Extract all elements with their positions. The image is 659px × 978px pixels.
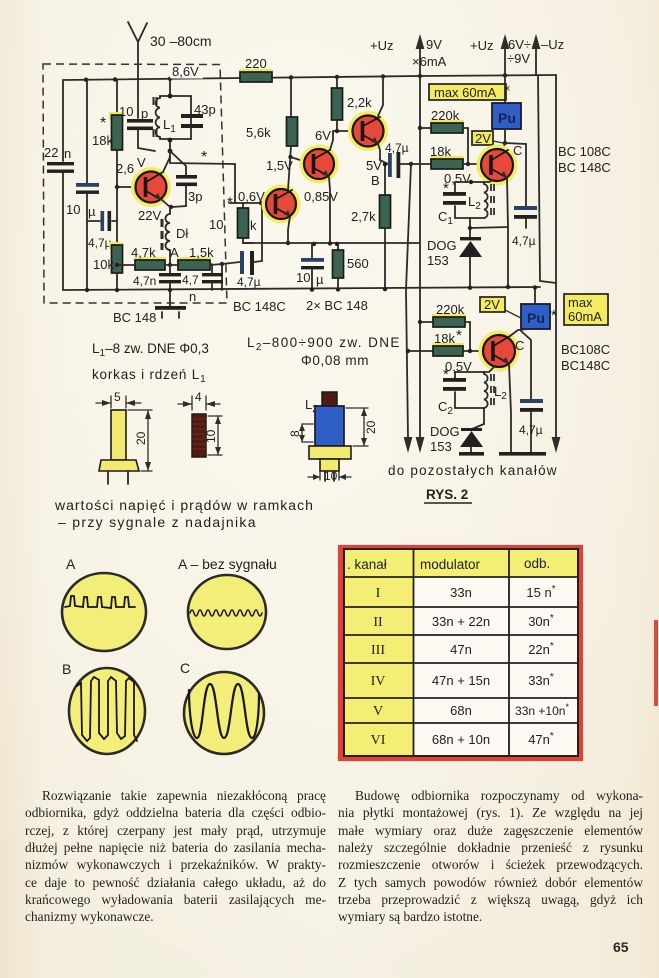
capacitor 4,7n [169,265,171,274]
wire below 22n [62,173,64,290]
svg-text:max: max [568,295,593,310]
scope circle B [69,668,145,754]
wire left branch [62,80,64,161]
svg-text:modulator: modulator [420,557,481,572]
svg-text:V: V [137,155,146,170]
transistor T1 [134,170,169,205]
capacitor 3p [170,151,186,175]
svg-text:– przy sygnale z nadajnika: – przy sygnale z nadajnika [58,514,257,530]
dimension 10 ferrite [208,415,222,417]
capacitor 22n [47,162,74,165]
page number [613,939,629,955]
capacitor 4,7u output ch1 [505,143,526,207]
wire 18k branch [116,79,118,115]
right text column [338,787,643,926]
svg-text:+Uz: +Uz [470,38,493,53]
svg-text:V: V [373,704,383,719]
wire T1 collector [163,157,170,172]
wire T4 emitter down [378,144,380,160]
svg-text:5: 5 [114,390,121,404]
svg-text:odb.: odb. [524,556,550,571]
svg-text:IV: IV [371,674,386,689]
svg-text:33n + 22n: 33n + 22n [432,614,490,629]
svg-text:1,5k: 1,5k [189,245,214,260]
svg-text:C: C [513,143,522,158]
relay Pu ch1 [492,103,521,129]
svg-text:2V: 2V [475,131,491,146]
svg-text:III: III [371,643,385,658]
wire below 10u [86,194,88,290]
wire T3 emitter down [329,177,330,243]
svg-text:33n: 33n [450,585,472,600]
svg-text:2,6: 2,6 [116,161,134,176]
svg-text:C: C [515,338,524,353]
inductor L2 ch2 [483,372,485,374]
wire 220k to base node [463,128,468,164]
waveform C sine [189,684,259,738]
svg-text:20: 20 [364,420,378,434]
svg-text:10: 10 [324,469,338,483]
node junction dots on top rail [84,78,88,82]
svg-text:5V: 5V [366,158,382,173]
transistor T2 buffer [264,187,298,221]
svg-text:4,7µ: 4,7µ [512,234,536,248]
svg-text:B: B [371,173,380,188]
dimension 10 L2 [319,462,321,480]
svg-text:*: * [201,149,207,166]
svg-text:I: I [376,586,381,601]
svg-text:2,7k: 2,7k [351,209,376,224]
transistor T3 [302,147,336,181]
svg-text:Dł: Dł [176,226,188,241]
svg-text:15 n*: 15 n* [526,584,555,600]
wire 18k to 10k [116,150,118,245]
svg-text:4,7µ: 4,7µ [385,141,409,155]
ferrite rod drawing [192,414,206,457]
svg-text:3p: 3p [188,189,202,204]
wire 10u branch [86,80,88,183]
wire T6 collector to Pu2 [510,329,528,336]
capacitor 10p antenna [127,119,153,123]
coil former L1 drawing [111,410,126,460]
resistor 10k [109,242,123,249]
table column lines [413,549,415,756]
coil former L2 drawing [322,392,337,406]
transistor T4 [351,114,386,149]
resistor 18k ch1 [430,156,464,164]
dashed oscillator box [43,64,227,303]
wire B bus to 18k [411,163,431,165]
wire Pu to +Uz [504,75,506,103]
table modulator values [432,585,490,747]
svg-text:n: n [189,289,196,304]
wire top supply rail [63,75,556,80]
svg-text:max 60mA: max 60mA [434,85,496,100]
svg-text:DOG: DOG [430,424,460,439]
power arrow 9V rail bottom [416,437,425,453]
wire Pu2 top to rail [534,287,536,304]
svg-text:220: 220 [245,56,267,71]
svg-text:20: 20 [134,431,148,445]
svg-text:18k: 18k [430,144,451,159]
svg-text:*: * [456,327,462,344]
svg-text:18k: 18k [434,331,455,346]
scope circle A2 [188,575,266,649]
svg-text:2V: 2V [484,297,500,312]
svg-text:wartości napięć i prądów w ram: wartości napięć i prądów w ramkach [54,497,314,513]
capacitor 10u [76,183,99,187]
yellow box 2V ch2 [480,297,505,312]
svg-text:68n: 68n [450,703,472,718]
svg-text:153: 153 [430,439,452,454]
transistor T5 ch1 [479,147,515,183]
svg-text:+Uz: +Uz [370,38,393,53]
dimension 20 [128,409,152,411]
svg-text:4,7µ: 4,7µ [237,275,261,289]
power -Uz arrow [535,44,537,75]
resistor 560 [337,244,339,250]
svg-text:2,2k: 2,2k [347,95,372,110]
wire T4 collector to rail [378,76,383,116]
core marks L1 [154,97,157,137]
svg-text:BC 148C: BC 148C [233,299,286,314]
svg-text:43p: 43p [194,102,216,117]
svg-text:BC 148: BC 148 [113,310,156,325]
power arrow signal bus bottom [404,437,413,453]
svg-text:4,7k: 4,7k [131,245,156,260]
svg-text:4,7: 4,7 [182,273,199,287]
wire tank2 to diode [483,408,485,424]
label 8,6V [170,67,203,79]
yellow box max 60mA [429,84,506,100]
svg-text:*: * [443,180,449,197]
wire right bus vertical [555,75,557,438]
svg-text:22: 22 [44,145,58,160]
waveform A2 ripple [190,610,262,616]
scope circle A [62,573,146,651]
wire T5 emitter to node [470,177,508,228]
antenna [137,42,139,118]
table rows roman numerals [371,586,386,748]
table header yellow band [344,549,578,577]
svg-text:*: * [443,366,449,383]
core marks Dl [161,219,164,250]
svg-text:*: * [100,115,106,132]
svg-text:8,6V: 8,6V [172,64,199,79]
waveform A [65,596,135,608]
wire osc out down to base node [234,164,236,203]
svg-text:18k: 18k [92,133,113,148]
wire 10p to tank [138,130,155,151]
svg-text:A: A [66,556,76,572]
wire signal bus B down [406,164,411,438]
svg-text:68n + 10n: 68n + 10n [432,732,490,747]
svg-text:Φ0,08 mm: Φ0,08 mm [301,353,369,368]
svg-text:k: k [250,218,257,233]
svg-text:8: 8 [288,430,302,437]
diode DOG 153 ch1 [460,237,481,240]
svg-text:B: B [62,661,71,677]
svg-text:4,7n: 4,7n [133,274,156,288]
svg-text:9V: 9V [426,37,442,52]
wire T6 emitter down [509,364,511,452]
table first column yellow [344,577,414,756]
svg-text:4,7µ: 4,7µ [519,423,543,437]
svg-text:BC148C: BC148C [561,358,610,373]
resistor 2,2k [336,77,338,88]
table odb values [515,584,569,747]
svg-text:22V: 22V [138,208,161,223]
capacitor C2 [443,378,466,382]
svg-text:BC 108C: BC 108C [558,144,611,159]
svg-text:II: II [373,615,383,630]
wire T3 collector to T4 base [330,131,352,150]
svg-text:*: * [551,307,557,324]
svg-text:5,6k: 5,6k [246,125,271,140]
resistor 100k [242,203,244,208]
svg-text:µ: µ [316,272,324,287]
svg-text:0,6V: 0,6V [238,189,265,204]
yellow box max 60mA ch2 [564,294,608,325]
core marks L2 ch2 [491,374,494,405]
svg-text:. kanał: . kanał [347,557,387,572]
svg-text:2× BC 148: 2× BC 148 [306,298,368,313]
svg-text:47n: 47n [450,642,472,657]
wire tank to diode node [469,218,471,238]
resistor 1,5k [177,257,211,265]
wire 5,6k down to T2 collector [288,146,291,190]
transistor T6 ch2 [481,333,517,369]
svg-text:220k: 220k [436,302,465,317]
capacitor 43p [181,114,203,118]
wire 18k to T5 base [463,163,482,165]
scope circle C [184,672,264,754]
inductor Dl choke [169,207,171,214]
svg-text:Pu: Pu [527,310,545,326]
resistor 220k ch1 [420,127,431,129]
dimension 20 L2 [346,407,368,409]
svg-text:÷9V: ÷9V [507,51,530,66]
wire 10k to rail [116,273,118,290]
wire osc output to buffer [170,151,235,164]
capacitor 10u decoupling [311,244,313,258]
wire common emitter line [243,242,420,244]
core marks L2 ch1 [491,184,494,215]
dimension 8 [301,424,303,442]
ground symbol oscillator [169,290,171,306]
wire common bottom rail [63,287,540,290]
svg-text:do pozostałych kanałów: do pozostałych kanałów [388,463,558,478]
wire T1 emitter node [162,200,170,207]
svg-text:30 –80cm: 30 –80cm [150,33,211,49]
svg-text:4,7µ: 4,7µ [88,236,112,250]
svg-text:6V÷: 6V÷ [508,37,531,52]
table red frame [341,548,581,759]
svg-text:1,5V: 1,5V [266,158,293,173]
waveform B square [77,677,137,741]
capacitor 4,7 [211,264,213,274]
svg-text:Pu: Pu [498,110,516,126]
svg-text:10k: 10k [93,257,114,272]
capacitor 4,7u coupling [222,262,240,264]
capacitor 4,7u interstage [380,160,388,164]
capacitor 4,7u oscillator [87,220,100,222]
wire 9V rail vertical [419,76,421,438]
table inner black border [344,549,578,756]
resistor 220 [239,69,273,77]
tank circuit L2 C1 [455,180,493,192]
wire to T3 base [291,157,304,161]
left text column [25,787,326,926]
svg-text:BC108C: BC108C [561,342,610,357]
svg-text:A – bez sygnału: A – bez sygnału [178,556,277,572]
svg-text:220k: 220k [431,108,460,123]
wire 100k bottom to emitter bus [243,238,253,243]
svg-text:n: n [64,146,71,161]
svg-text:0,85V: 0,85V [304,189,338,204]
svg-text:4: 4 [195,390,202,404]
tank circuit ch2 [455,366,495,378]
resistor 18k [109,112,123,120]
svg-text:33n +10n*: 33n +10n* [515,702,569,718]
resistor 220k ch2 [420,321,433,323]
capacitor C1 [443,192,466,196]
wire Pu to T5 collector [504,129,506,144]
svg-text:–Uz: –Uz [541,37,564,52]
svg-text:6V: 6V [315,128,331,143]
wire tank bottom to collector node [169,139,171,151]
svg-text:60mA: 60mA [568,309,602,324]
red page edge mark [654,620,658,706]
svg-text:47n + 15n: 47n + 15n [432,673,490,688]
svg-text:C: C [180,660,190,676]
resistor 5,6k [290,77,292,117]
svg-text:10: 10 [119,104,133,119]
svg-text:RYS. 2: RYS. 2 [426,487,468,502]
svg-text:VI: VI [371,733,386,748]
wire base node [229,202,266,204]
capacitor 4,7u output ch2 [521,331,531,400]
svg-text:10: 10 [204,429,218,443]
svg-text:DOG: DOG [427,238,457,253]
inductor L2 ch1 [483,182,485,184]
yellow box 2V [472,131,493,145]
svg-text:×6mA: ×6mA [412,54,447,69]
power +Uz arrow channel rail [504,44,506,75]
wire -Uz feed vertical [538,75,556,283]
wire emitter T2 degeneration [288,216,290,243]
resistor 2,7k [384,164,386,195]
power arrow right bus bottom [552,437,561,453]
svg-text:10: 10 [296,270,310,285]
svg-text:BC 148C: BC 148C [558,160,611,175]
svg-text:153: 153 [427,253,449,268]
wire base T1 [117,186,137,188]
resistor 4,7k [117,264,135,266]
diode DOG 153 ch2 [461,428,482,431]
svg-text:560: 560 [347,256,369,271]
svg-text:10: 10 [66,202,80,217]
resistor 18k ch2 [408,350,433,352]
svg-text:p: p [141,106,148,121]
svg-text:10: 10 [209,217,223,232]
svg-text:µ: µ [88,204,96,219]
power +Uz arrow (9V rail) [419,44,421,76]
table row lines [344,576,578,578]
relay Pu ch2 [521,304,550,329]
svg-text:*: * [227,194,233,211]
inductor L1 tank loop [160,96,191,139]
